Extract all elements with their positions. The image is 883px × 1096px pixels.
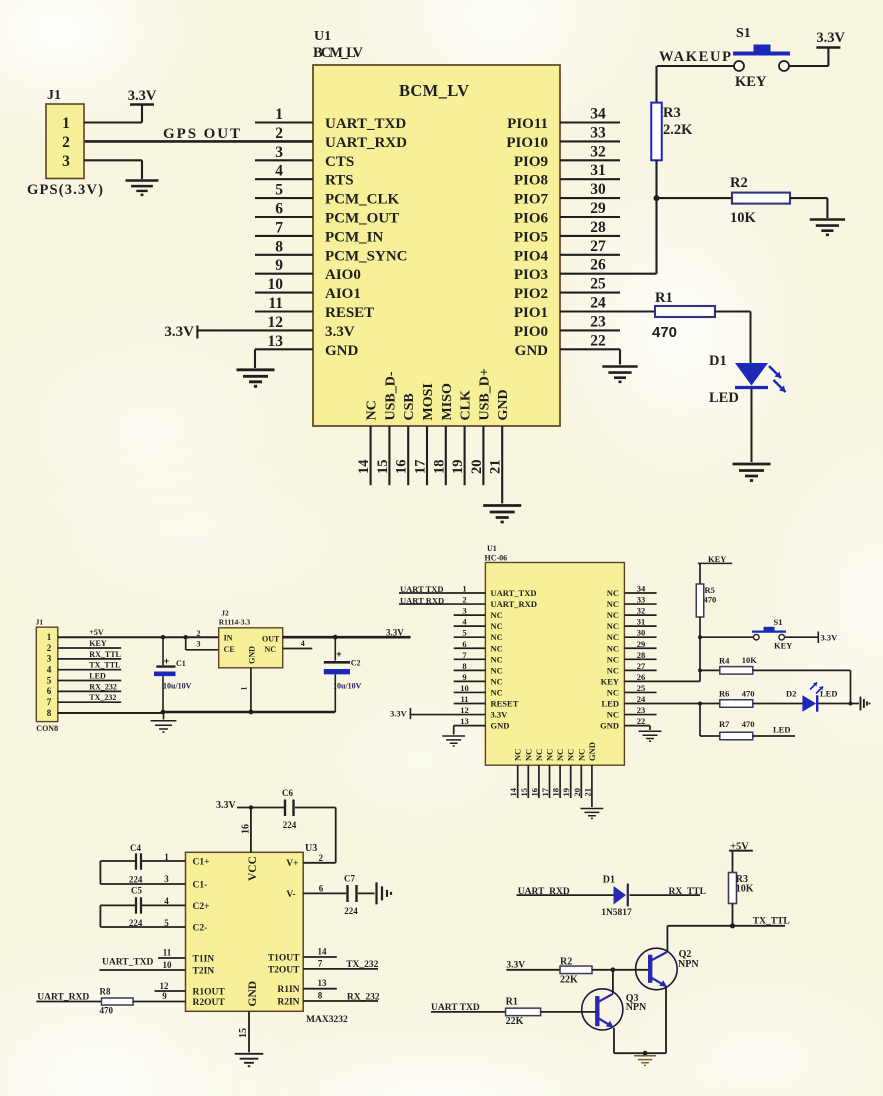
- svg-text:17: 17: [540, 787, 550, 796]
- svg-text:T1IN: T1IN: [193, 955, 215, 965]
- svg-text:IN: IN: [224, 634, 233, 643]
- svg-text:S1: S1: [774, 617, 783, 627]
- svg-text:3: 3: [197, 640, 201, 649]
- svg-text:14: 14: [356, 460, 372, 475]
- svg-text:470: 470: [652, 324, 677, 341]
- svg-text:13: 13: [460, 716, 469, 726]
- svg-text:UART_RXD: UART_RXD: [325, 135, 407, 151]
- svg-text:16: 16: [394, 460, 410, 475]
- svg-text:3.3V: 3.3V: [128, 88, 157, 104]
- svg-text:NC: NC: [607, 654, 619, 664]
- svg-text:5: 5: [164, 918, 169, 928]
- svg-text:C1: C1: [176, 659, 186, 668]
- svg-text:V+: V+: [286, 859, 298, 869]
- svg-text:3.3V: 3.3V: [816, 30, 845, 46]
- svg-text:HC-06: HC-06: [485, 554, 508, 563]
- svg-text:NC: NC: [545, 749, 555, 761]
- svg-text:470: 470: [100, 1006, 114, 1016]
- svg-text:GND: GND: [325, 343, 359, 359]
- svg-text:224: 224: [344, 906, 358, 916]
- svg-text:7: 7: [318, 958, 323, 968]
- svg-text:25: 25: [637, 683, 646, 693]
- svg-text:UART_RXD: UART_RXD: [37, 993, 89, 1003]
- svg-text:3.3V: 3.3V: [491, 710, 509, 720]
- svg-text:29: 29: [590, 200, 606, 217]
- svg-text:NC: NC: [513, 749, 523, 761]
- svg-text:R2: R2: [730, 175, 748, 191]
- svg-text:RX_TTL: RX_TTL: [669, 887, 706, 897]
- svg-text:1: 1: [62, 115, 70, 132]
- svg-text:3.3V: 3.3V: [164, 324, 194, 340]
- svg-text:GND: GND: [248, 646, 257, 664]
- svg-text:2: 2: [47, 643, 52, 653]
- svg-text:NC: NC: [566, 749, 576, 761]
- svg-text:PIO4: PIO4: [514, 248, 549, 264]
- svg-text:R8: R8: [100, 987, 111, 997]
- svg-text:NC: NC: [607, 687, 619, 697]
- svg-text:PIO8: PIO8: [514, 173, 548, 189]
- svg-text:NC: NC: [491, 643, 503, 653]
- svg-text:PCM_CLK: PCM_CLK: [325, 192, 399, 208]
- svg-text:U3: U3: [305, 843, 317, 854]
- svg-text:R7: R7: [719, 719, 730, 729]
- svg-text:NC: NC: [491, 654, 503, 664]
- svg-text:4: 4: [47, 664, 52, 674]
- svg-text:24: 24: [637, 694, 646, 704]
- svg-text:LED: LED: [820, 689, 837, 699]
- svg-text:470: 470: [742, 719, 755, 729]
- svg-text:18: 18: [431, 460, 447, 475]
- svg-text:R1: R1: [655, 290, 673, 306]
- svg-text:GPS(3.3V): GPS(3.3V): [27, 182, 103, 198]
- svg-text:11: 11: [460, 694, 468, 704]
- svg-text:1: 1: [462, 584, 466, 594]
- svg-text:30: 30: [590, 181, 606, 198]
- svg-text:R5: R5: [705, 585, 715, 595]
- svg-text:R6: R6: [719, 689, 729, 699]
- svg-text:RX_232: RX_232: [89, 682, 117, 691]
- svg-text:26: 26: [590, 257, 606, 274]
- svg-text:7: 7: [47, 697, 52, 707]
- svg-text:PIO11: PIO11: [507, 116, 548, 132]
- svg-text:30: 30: [637, 628, 646, 638]
- svg-text:R1: R1: [506, 997, 518, 1008]
- svg-text:RTS: RTS: [325, 173, 354, 189]
- svg-text:NC: NC: [365, 400, 380, 420]
- svg-text:J1: J1: [36, 618, 44, 627]
- svg-text:R1IN: R1IN: [277, 985, 299, 995]
- svg-text:28: 28: [637, 650, 646, 660]
- svg-text:2: 2: [275, 125, 283, 142]
- svg-text:23: 23: [590, 313, 606, 330]
- svg-text:C2: C2: [351, 658, 361, 667]
- svg-text:8: 8: [47, 708, 52, 718]
- svg-text:224: 224: [129, 918, 143, 928]
- svg-text:10K: 10K: [736, 883, 754, 894]
- svg-text:3: 3: [164, 874, 169, 884]
- svg-text:BCM_LV: BCM_LV: [399, 81, 469, 100]
- svg-text:6: 6: [47, 686, 52, 696]
- svg-text:CTS: CTS: [325, 154, 354, 170]
- svg-text:19: 19: [561, 788, 571, 797]
- svg-text:8: 8: [275, 238, 283, 255]
- svg-text:TX_TTL: TX_TTL: [753, 916, 790, 926]
- svg-text:USB_D-: USB_D-: [383, 371, 398, 420]
- svg-text:PIO6: PIO6: [514, 211, 549, 227]
- svg-text:GND: GND: [600, 721, 619, 731]
- svg-text:13: 13: [268, 333, 284, 350]
- svg-text:34: 34: [590, 106, 606, 123]
- svg-text:7: 7: [275, 219, 283, 236]
- svg-text:V-: V-: [286, 890, 295, 900]
- svg-text:T2IN: T2IN: [193, 967, 215, 977]
- svg-text:CSB: CSB: [402, 393, 417, 420]
- svg-text:PCM_IN: PCM_IN: [325, 229, 383, 245]
- svg-text:NC: NC: [491, 665, 503, 675]
- svg-text:33: 33: [590, 124, 606, 141]
- svg-text:31: 31: [590, 162, 606, 179]
- svg-text:CE: CE: [224, 645, 235, 654]
- svg-text:NC: NC: [523, 749, 533, 761]
- svg-text:UART_TXD: UART_TXD: [102, 957, 154, 967]
- svg-text:D2: D2: [786, 688, 796, 698]
- svg-text:10K: 10K: [730, 210, 757, 226]
- svg-text:2.2K: 2.2K: [663, 122, 693, 138]
- svg-text:KEY: KEY: [601, 676, 619, 686]
- svg-text:GND: GND: [587, 742, 597, 761]
- svg-text:18: 18: [551, 788, 561, 797]
- svg-text:22: 22: [590, 332, 606, 349]
- svg-text:C4: C4: [130, 843, 141, 853]
- svg-text:224: 224: [129, 875, 143, 885]
- svg-text:KEY: KEY: [735, 74, 767, 90]
- svg-text:UART_TXD: UART_TXD: [491, 588, 537, 598]
- svg-text:5: 5: [462, 628, 466, 638]
- svg-text:13: 13: [318, 978, 328, 988]
- svg-text:2: 2: [462, 595, 466, 605]
- svg-text:R2OUT: R2OUT: [193, 998, 226, 1008]
- svg-text:CLK: CLK: [459, 390, 474, 420]
- svg-text:16: 16: [241, 824, 252, 834]
- svg-text:WAKEUP: WAKEUP: [659, 49, 731, 65]
- svg-text:33: 33: [637, 595, 646, 605]
- svg-text:10: 10: [460, 683, 469, 693]
- svg-text:14: 14: [508, 787, 518, 796]
- svg-text:KEY: KEY: [708, 554, 726, 564]
- svg-text:NC: NC: [491, 610, 503, 620]
- svg-text:32: 32: [590, 143, 606, 160]
- svg-text:27: 27: [637, 661, 646, 671]
- svg-text:2: 2: [319, 853, 324, 863]
- svg-text:PIO1: PIO1: [514, 305, 548, 321]
- svg-text:RESET: RESET: [491, 699, 519, 709]
- svg-text:NC: NC: [534, 749, 544, 761]
- svg-text:D1: D1: [603, 875, 615, 886]
- svg-text:21: 21: [582, 788, 592, 797]
- svg-text:GND: GND: [247, 981, 259, 1007]
- svg-text:16: 16: [529, 788, 539, 797]
- svg-text:R1OUT: R1OUT: [193, 988, 226, 998]
- svg-text:RESET: RESET: [325, 305, 374, 321]
- svg-text:2: 2: [62, 134, 70, 151]
- svg-text:R4: R4: [719, 656, 730, 666]
- svg-text:KEY: KEY: [774, 641, 792, 651]
- svg-text:20: 20: [572, 788, 582, 797]
- svg-text:224: 224: [283, 820, 297, 830]
- svg-text:VCC: VCC: [247, 856, 259, 881]
- svg-text:PIO2: PIO2: [514, 286, 548, 302]
- svg-text:+: +: [164, 656, 169, 666]
- svg-text:1: 1: [240, 687, 249, 691]
- svg-text:17: 17: [413, 460, 429, 475]
- svg-text:4: 4: [275, 163, 283, 180]
- svg-text:9: 9: [162, 991, 167, 1001]
- svg-text:C5: C5: [131, 886, 142, 896]
- svg-text:PCM_SYNC: PCM_SYNC: [325, 248, 408, 264]
- svg-text:31: 31: [637, 617, 646, 627]
- svg-text:NC: NC: [607, 665, 619, 675]
- svg-text:PIO10: PIO10: [506, 135, 548, 151]
- svg-text:22K: 22K: [506, 1016, 524, 1027]
- svg-text:PIO7: PIO7: [514, 192, 549, 208]
- svg-text:NC: NC: [607, 588, 619, 598]
- svg-text:NC: NC: [607, 632, 619, 642]
- svg-text:3.3V: 3.3V: [506, 960, 525, 970]
- svg-text:GND: GND: [515, 343, 549, 359]
- svg-text:T1OUT: T1OUT: [268, 954, 300, 964]
- svg-text:12: 12: [160, 981, 170, 991]
- svg-text:C6: C6: [282, 788, 293, 798]
- svg-text:3: 3: [47, 654, 52, 664]
- svg-text:J2: J2: [221, 609, 229, 618]
- svg-text:3.3V: 3.3V: [386, 628, 404, 638]
- svg-text:AIO1: AIO1: [325, 286, 361, 302]
- svg-text:R2IN: R2IN: [277, 998, 299, 1008]
- svg-text:27: 27: [590, 238, 606, 255]
- svg-text:NPN: NPN: [678, 959, 699, 970]
- svg-text:UART_RXD: UART_RXD: [491, 599, 537, 609]
- svg-text:12: 12: [268, 314, 284, 331]
- svg-text:R3: R3: [663, 105, 681, 121]
- svg-text:4: 4: [164, 896, 169, 906]
- svg-text:T2OUT: T2OUT: [268, 965, 300, 975]
- svg-text:10u/10V: 10u/10V: [163, 682, 192, 691]
- svg-text:3.3V: 3.3V: [390, 709, 408, 719]
- svg-text:UART RXD: UART RXD: [400, 596, 444, 606]
- svg-text:MISO: MISO: [440, 383, 455, 420]
- svg-text:3.3V: 3.3V: [216, 800, 237, 811]
- svg-text:1: 1: [275, 106, 283, 123]
- svg-text:C1-: C1-: [193, 881, 208, 891]
- svg-text:TX_TTL: TX_TTL: [89, 661, 120, 670]
- svg-text:6: 6: [462, 639, 466, 649]
- svg-text:5: 5: [275, 182, 283, 199]
- svg-text:3.3V: 3.3V: [325, 324, 355, 340]
- svg-text:C2-: C2-: [193, 924, 208, 934]
- svg-text:KEY: KEY: [89, 639, 107, 648]
- svg-text:8: 8: [318, 991, 323, 1001]
- svg-text:470: 470: [704, 595, 717, 605]
- svg-text:9: 9: [462, 672, 466, 682]
- svg-text:R2: R2: [560, 956, 572, 967]
- svg-text:U1: U1: [314, 29, 331, 44]
- svg-text:4: 4: [462, 617, 467, 627]
- svg-text:+5V: +5V: [89, 628, 104, 637]
- svg-text:10: 10: [268, 276, 284, 293]
- svg-text:NC: NC: [607, 643, 619, 653]
- svg-text:LED: LED: [89, 672, 106, 681]
- svg-text:AIO0: AIO0: [325, 267, 361, 283]
- svg-text:1N5817: 1N5817: [601, 908, 632, 918]
- svg-text:LED: LED: [773, 724, 790, 734]
- svg-text:12: 12: [460, 705, 469, 715]
- svg-text:3: 3: [62, 153, 70, 170]
- svg-text:1: 1: [47, 632, 52, 642]
- svg-text:1: 1: [164, 852, 169, 862]
- svg-text:19: 19: [450, 460, 466, 475]
- svg-text:24: 24: [590, 295, 606, 312]
- svg-text:2: 2: [197, 629, 201, 638]
- svg-text:3: 3: [275, 144, 283, 161]
- svg-text:22: 22: [637, 716, 646, 726]
- svg-text:470: 470: [742, 688, 755, 698]
- svg-text:11: 11: [163, 948, 172, 958]
- svg-text:15: 15: [519, 788, 529, 797]
- svg-text:U1: U1: [487, 544, 497, 553]
- svg-text:14: 14: [318, 947, 328, 957]
- svg-text:S1: S1: [736, 26, 751, 41]
- svg-text:UART_TXD: UART_TXD: [325, 116, 406, 132]
- svg-text:32: 32: [637, 606, 646, 616]
- svg-text:GPS OUT: GPS OUT: [163, 126, 240, 142]
- svg-text:29: 29: [637, 639, 646, 649]
- svg-text:NC: NC: [576, 749, 586, 761]
- svg-text:6: 6: [319, 884, 324, 894]
- svg-text:RX_232: RX_232: [347, 993, 380, 1003]
- svg-text:PIO9: PIO9: [514, 154, 548, 170]
- svg-text:UART TXD: UART TXD: [400, 584, 444, 594]
- svg-text:NC: NC: [607, 610, 619, 620]
- svg-text:NC: NC: [607, 621, 619, 631]
- svg-text:25: 25: [590, 276, 606, 293]
- svg-text:PIO0: PIO0: [514, 324, 548, 340]
- svg-text:34: 34: [637, 584, 646, 594]
- svg-text:CON8: CON8: [36, 724, 58, 733]
- svg-text:20: 20: [469, 460, 485, 475]
- svg-text:7: 7: [462, 650, 467, 660]
- svg-text:15: 15: [238, 1028, 249, 1038]
- svg-text:10u/10V: 10u/10V: [333, 681, 362, 690]
- svg-text:NC: NC: [265, 645, 277, 654]
- svg-text:NC: NC: [607, 710, 619, 720]
- svg-text:MAX3232: MAX3232: [306, 1015, 348, 1025]
- svg-text:C7: C7: [344, 874, 355, 884]
- svg-text:R1114-3.3: R1114-3.3: [219, 617, 251, 626]
- svg-text:OUT: OUT: [262, 635, 280, 644]
- svg-text:LED: LED: [709, 390, 739, 406]
- svg-text:PIO5: PIO5: [514, 229, 548, 245]
- svg-text:PCM_OUT: PCM_OUT: [325, 211, 399, 227]
- svg-text:+: +: [336, 649, 341, 659]
- svg-text:15: 15: [375, 460, 391, 475]
- svg-text:NPN: NPN: [626, 1002, 647, 1013]
- svg-text:BCM_LV: BCM_LV: [313, 45, 364, 61]
- svg-text:NC: NC: [491, 632, 503, 642]
- svg-text:5: 5: [47, 675, 52, 685]
- svg-text:C2+: C2+: [193, 902, 210, 912]
- svg-text:NC: NC: [491, 676, 503, 686]
- svg-text:RX_TTL: RX_TTL: [89, 650, 121, 659]
- svg-text:C1+: C1+: [193, 858, 210, 868]
- svg-text:9: 9: [275, 257, 283, 274]
- svg-text:6: 6: [275, 201, 283, 218]
- svg-text:NC: NC: [555, 749, 565, 761]
- svg-text:11: 11: [268, 295, 283, 312]
- svg-text:4: 4: [301, 639, 305, 648]
- svg-text:28: 28: [590, 219, 606, 236]
- svg-text:MOSI: MOSI: [421, 383, 436, 420]
- svg-text:LED: LED: [602, 699, 619, 709]
- svg-text:GND: GND: [491, 721, 510, 731]
- svg-text:21: 21: [488, 460, 504, 475]
- svg-text:PIO3: PIO3: [514, 267, 548, 283]
- svg-text:NC: NC: [607, 599, 619, 609]
- svg-text:USB_D+: USB_D+: [477, 368, 492, 420]
- svg-text:3.3V: 3.3V: [821, 633, 839, 643]
- svg-text:NC: NC: [491, 687, 503, 697]
- svg-text:26: 26: [637, 672, 646, 682]
- svg-text:8: 8: [462, 661, 466, 671]
- svg-text:D1: D1: [709, 353, 727, 369]
- svg-text:10K: 10K: [742, 655, 758, 665]
- svg-text:NC: NC: [491, 621, 503, 631]
- svg-text:J1: J1: [47, 88, 61, 103]
- svg-text:TX_232: TX_232: [346, 960, 378, 970]
- svg-text:TX_232: TX_232: [89, 693, 116, 702]
- svg-text:GND: GND: [496, 389, 511, 420]
- svg-text:3: 3: [462, 606, 466, 616]
- svg-text:10: 10: [163, 960, 173, 970]
- svg-text:22K: 22K: [560, 975, 578, 986]
- svg-text:23: 23: [637, 705, 646, 715]
